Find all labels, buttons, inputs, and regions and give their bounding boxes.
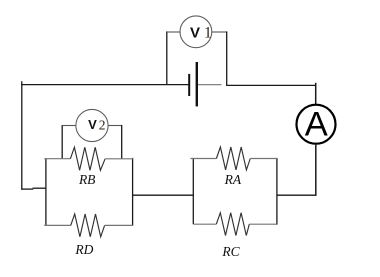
resistor RB zigzag	[70, 147, 105, 170]
svg-text:RC: RC	[221, 244, 240, 259]
wire: RC branch left (gray)	[193, 223, 216, 225]
wire: V1 right stub	[212, 31, 227, 33]
wire: V1 left vertical	[166, 31, 168, 84]
svg-text:RB: RB	[78, 172, 96, 187]
battery B1 short plate	[188, 74, 190, 96]
wire: V1 right vertical	[226, 31, 228, 85]
svg-text:RA: RA	[224, 172, 242, 187]
wire: right pair left rail	[192, 158, 194, 224]
wire: left jog into left parallel pair	[21, 188, 33, 190]
resistor RC zigzag	[216, 213, 249, 236]
wire: V2 left vertical	[61, 125, 63, 159]
wire: ammeter top lead	[315, 83, 317, 105]
ammeter A	[297, 105, 336, 144]
wire: RA branch left (gray)	[190, 158, 216, 160]
resistor RA zigzag	[216, 147, 250, 170]
wire: battery right stub (gray)	[197, 84, 222, 86]
wire: V2 right vertical	[121, 125, 123, 159]
wire: top-left horizontal (battery left to left corner)	[21, 84, 189, 86]
wire: RD branch right (gray)	[105, 224, 134, 226]
voltmeter V1	[180, 16, 212, 48]
wire: RB branch left (gray)	[44, 158, 70, 160]
wire: outer left vertical	[21, 81, 23, 190]
wire: right pair right rail	[276, 158, 278, 225]
svg-text:1: 1	[204, 25, 212, 42]
svg-text:V: V	[88, 117, 97, 132]
wire: left pair right rail	[132, 158, 134, 226]
wire: ammeter bottom lead	[315, 144, 317, 196]
wire: V1 left stub	[167, 31, 180, 33]
wire: V2 right stub	[108, 125, 121, 127]
wire: RB branch right (gray)	[105, 158, 133, 160]
wire: RD branch left (gray)	[44, 224, 70, 226]
wire: middle-left horizontal (left pair to right pair)	[133, 194, 194, 196]
svg-text:V: V	[190, 24, 200, 41]
wire: V2 left stub	[62, 125, 76, 127]
battery B1 long plate	[196, 62, 198, 106]
wire: top-right horizontal to ammeter corner	[226, 84, 316, 86]
wire: left pair left rail	[45, 158, 47, 225]
wire: RA branch right (gray)	[250, 158, 277, 160]
wire: left jog second segment	[33, 187, 46, 189]
voltmeter V2	[76, 109, 108, 141]
wire: middle-right horizontal (right pair to ammeter)	[277, 194, 317, 196]
svg-text:RD: RD	[74, 242, 93, 257]
svg-text:2: 2	[99, 117, 106, 132]
wire: RC branch right (gray)	[249, 223, 277, 225]
svg-text:A: A	[305, 105, 328, 143]
resistor RD zigzag	[71, 214, 105, 237]
